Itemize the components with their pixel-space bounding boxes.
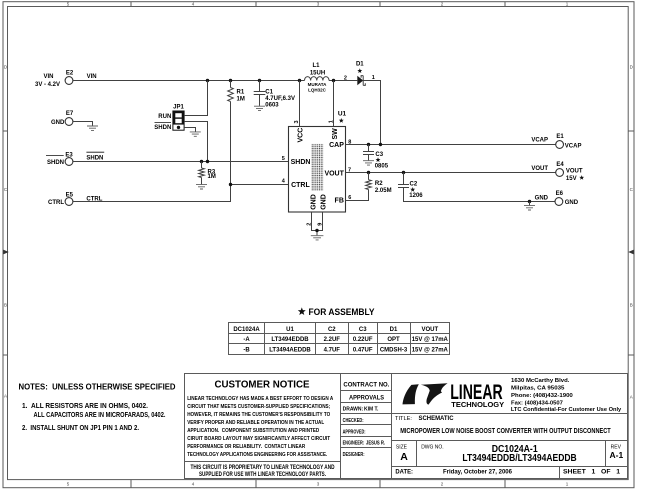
svg-text:VERIFY PROPER AND RELIABLE OPE: VERIFY PROPER AND RELIABLE OPERATION IN …: [187, 420, 324, 426]
wire CTRL E5 to U1: [73, 185, 289, 202]
svg-text:U1: U1: [286, 327, 294, 333]
Linear Technology logo mark: [403, 383, 448, 404]
junction SHDN-R3: [200, 160, 203, 163]
svg-text:PERFORMANCE OR RELIABILITY. C: PERFORMANCE OR RELIABILITY. CONTACT LINE…: [187, 444, 306, 450]
svg-text:GND: GND: [565, 200, 579, 206]
svg-text:LT3494EDDB: LT3494EDDB: [271, 337, 309, 343]
svg-text:VCC: VCC: [297, 128, 304, 143]
star for 15V: [579, 175, 584, 180]
svg-text:APPROVALS: APPROVALS: [349, 395, 384, 401]
svg-text:9: 9: [318, 223, 324, 226]
junction VOUT-C2: [402, 171, 405, 174]
terminal E1: [556, 134, 582, 150]
junction VIN-JP1: [206, 79, 209, 82]
svg-text:CUSTOMER NOTICE: CUSTOMER NOTICE: [215, 380, 310, 391]
svg-text:CTRL: CTRL: [291, 182, 310, 189]
resistor R2: [366, 173, 392, 194]
zone numbers top: [67, 1, 569, 6]
svg-text:FOR ASSEMBLY: FOR ASSEMBLY: [309, 307, 375, 317]
terminal E3: [46, 153, 73, 167]
U1 GND pins to ground: [312, 212, 323, 235]
wire JP1 pin3 to ground: [184, 128, 195, 132]
svg-text:D1: D1: [390, 327, 398, 333]
svg-text:LQH32C: LQH32C: [308, 87, 327, 92]
ground at C1: [254, 106, 265, 110]
ground at JP1: [190, 132, 201, 136]
svg-text:3: 3: [294, 120, 300, 123]
svg-text:GND: GND: [51, 120, 65, 126]
inductor L1: [305, 63, 330, 92]
svg-text:L1: L1: [312, 63, 320, 69]
address block: [511, 378, 622, 413]
svg-text:1206: 1206: [409, 193, 423, 199]
star FOR ASSEMBLY note: [298, 307, 375, 317]
pin number 8: [348, 139, 351, 145]
svg-text:ALL CAPACITORS ARE IN MICROFAR: ALL CAPACITORS ARE IN MICROFARADS, 0402.: [34, 412, 166, 419]
junction VIN-R1: [229, 79, 232, 82]
svg-text:VOUT: VOUT: [566, 169, 583, 175]
wire FB to R2: [346, 190, 369, 201]
date/sheet row: [392, 467, 628, 479]
wire JP1 pin2 to SHDN net: [184, 122, 207, 162]
svg-text:R2: R2: [375, 181, 383, 187]
svg-text:DATE:: DATE:: [395, 469, 413, 476]
svg-text:SCHEMATIC: SCHEMATIC: [419, 415, 454, 422]
customer notice box: [185, 374, 341, 479]
svg-text:U1: U1: [338, 110, 347, 117]
net label VCAP: [531, 138, 548, 144]
svg-text:GND: GND: [535, 195, 549, 201]
wire JP1 pin1 to VIN: [184, 81, 207, 116]
net label SHDN (overline): [86, 152, 104, 161]
svg-text:Fax: (408)434-0507: Fax: (408)434-0507: [511, 401, 564, 407]
wire D1 cathode down to CAP net: [363, 81, 380, 145]
wire VOUT net to E4: [346, 172, 556, 174]
pin number 2 (U1 GND): [306, 223, 312, 226]
svg-text:E6: E6: [556, 191, 564, 197]
svg-text:C3: C3: [359, 327, 367, 333]
notes text: [19, 382, 176, 432]
svg-text:RUN: RUN: [158, 114, 171, 120]
svg-text:VOUT: VOUT: [531, 166, 548, 172]
junction U1 GND: [315, 229, 318, 232]
svg-text:TECHNOLOGY: TECHNOLOGY: [451, 400, 504, 409]
svg-text:0.22UF: 0.22UF: [353, 337, 373, 343]
svg-text:CTRL: CTRL: [86, 196, 102, 202]
pin number 1 (D1): [372, 75, 375, 81]
svg-text:3V - 4.2V: 3V - 4.2V: [35, 82, 60, 88]
ground at R3: [196, 185, 207, 189]
svg-text:15V @ 17mA: 15V @ 17mA: [412, 337, 449, 343]
svg-text:1630 McCarthy Blvd.: 1630 McCarthy Blvd.: [511, 378, 570, 384]
svg-text:TITLE:: TITLE:: [395, 416, 412, 422]
svg-text:2.2UF: 2.2UF: [324, 337, 341, 343]
zone ticks right: [628, 131, 634, 355]
svg-text:0.47UF: 0.47UF: [353, 348, 373, 354]
svg-text:B: B: [4, 303, 7, 308]
svg-text:0603: 0603: [265, 103, 279, 109]
pin number 2 (D1): [344, 75, 347, 81]
resistor R1: [228, 81, 245, 103]
assembly options table: [229, 323, 450, 355]
star for C2: [410, 187, 415, 192]
net label VOUT: [531, 166, 548, 172]
capacitor C3: [363, 145, 389, 170]
svg-text:FB: FB: [335, 198, 344, 205]
junction CAP-D1: [379, 143, 382, 146]
svg-text:E7: E7: [66, 111, 74, 117]
ground at C3: [363, 161, 374, 165]
svg-text:VIN: VIN: [43, 74, 53, 80]
junction L1-SW: [332, 79, 335, 82]
svg-text:Phone: (408)432-1900: Phone: (408)432-1900: [511, 393, 574, 399]
svg-text:VIN: VIN: [87, 74, 97, 80]
svg-text:E3: E3: [65, 153, 73, 159]
svg-text:E5: E5: [66, 192, 74, 198]
svg-text:D1: D1: [356, 62, 364, 68]
svg-text:SHDN: SHDN: [154, 125, 171, 131]
svg-text:2. INSTALL SHUNT ON JP1 PIN 1: 2. INSTALL SHUNT ON JP1 PIN 1 AND 2.: [22, 425, 139, 432]
svg-text:2.05M: 2.05M: [375, 188, 392, 194]
svg-text:CONTRACT NO.: CONTRACT NO.: [343, 382, 389, 388]
JP1 label RUN: [158, 114, 171, 120]
ground at U1: [311, 236, 324, 240]
pin number 1 (SW): [329, 120, 335, 123]
svg-text:2: 2: [344, 75, 347, 81]
svg-text:VOUT: VOUT: [421, 327, 438, 333]
svg-text:0805: 0805: [375, 163, 389, 169]
zone letters left: [4, 65, 8, 399]
svg-text:LT3494EDDB/LT3494AEDDB: LT3494EDDB/LT3494AEDDB: [462, 453, 576, 464]
svg-text:SHDN: SHDN: [86, 155, 103, 161]
wire R1 bottom to CTRL junction: [230, 102, 232, 202]
zone letters right: [630, 65, 634, 400]
JP1 label SHDN (with overline): [154, 123, 171, 131]
svg-text:4.7UF: 4.7UF: [324, 348, 341, 354]
svg-text:CIRUIT BOARD LAYOUT MAY SIGNIF: CIRUIT BOARD LAYOUT MAY SIGNIFICANTLY AF…: [187, 436, 330, 442]
svg-text:-A: -A: [243, 337, 250, 343]
svg-text:5: 5: [282, 156, 285, 162]
wire VIN E2 to L1: [73, 80, 305, 82]
svg-text:1M: 1M: [208, 174, 216, 180]
svg-text:MURATA: MURATA: [308, 82, 328, 87]
svg-text:CHECKED:: CHECKED:: [343, 418, 364, 424]
wire VCC stub: [299, 81, 301, 127]
svg-text:1. ALL RESISTORS ARE IN OHMS,: 1. ALL RESISTORS ARE IN OHMS, 0402.: [22, 403, 148, 410]
wire SHDN E3 to U1: [73, 161, 289, 163]
pin number 6: [348, 195, 351, 201]
svg-text:SHDN: SHDN: [47, 160, 64, 166]
svg-text:APPLICATION. COMPONENT SUBSTI: APPLICATION. COMPONENT SUBSTITUTION AND …: [187, 428, 319, 434]
diode D1 (schottky): [356, 62, 365, 86]
svg-text:A: A: [630, 395, 633, 400]
junction SHDN-JP1: [206, 160, 209, 163]
svg-text:2: 2: [306, 223, 312, 226]
zone ticks bottom: [131, 480, 505, 488]
svg-text:DWG NO.: DWG NO.: [421, 444, 444, 450]
star for U1: [339, 118, 344, 123]
svg-text:ENGINEER:: ENGINEER:: [343, 441, 365, 447]
svg-text:GND: GND: [310, 194, 317, 210]
svg-text:C2: C2: [328, 327, 336, 333]
svg-text:C2: C2: [410, 181, 418, 187]
terminal E7: [51, 111, 74, 126]
terminal E6: [555, 191, 579, 206]
svg-text:OPT: OPT: [387, 337, 400, 343]
svg-text:A: A: [4, 394, 7, 399]
svg-text:SIZE: SIZE: [396, 444, 408, 450]
svg-text:Milpitas, CA 95035: Milpitas, CA 95035: [511, 386, 565, 392]
capacitor C1: [254, 81, 295, 109]
pin number 3: [294, 120, 300, 123]
svg-text:LINEAR TECHNOLOGY HAS MADE A B: LINEAR TECHNOLOGY HAS MADE A BEST EFFORT…: [187, 396, 334, 402]
terminal E5: [48, 192, 74, 206]
svg-text:SUPPLIED FOR USE WITH LINEAR T: SUPPLIED FOR USE WITH LINEAR TECHNOLOGY …: [199, 472, 326, 478]
svg-text:A-1: A-1: [610, 450, 624, 460]
customer notice paragraph: [187, 396, 334, 458]
svg-text:CTRL: CTRL: [48, 200, 64, 206]
svg-text:APPROVED:: APPROVED:: [343, 429, 366, 435]
pin number 5: [282, 156, 285, 162]
svg-text:SW: SW: [332, 128, 339, 140]
svg-text:MICROPOWER LOW NOISE BOOST CON: MICROPOWER LOW NOISE BOOST CONVERTER WIT…: [400, 428, 611, 435]
logo wordmark LINEAR: [450, 380, 504, 409]
zone ticks left: [3, 131, 8, 355]
terminal E4: [556, 162, 583, 182]
wire SW stub: [333, 81, 335, 127]
svg-text:TECHNOLOGY APPLICATIONS ENGINE: TECHNOLOGY APPLICATIONS ENGINEERING FOR …: [187, 452, 327, 458]
junction CTRL-R1: [229, 183, 232, 186]
IC U1 (LT3494): [289, 110, 347, 212]
jumper JP1: [173, 104, 185, 130]
centering arrow left: [3, 250, 9, 255]
svg-text:JESUS R.: JESUS R.: [366, 441, 385, 447]
junction VIN-C1: [258, 79, 261, 82]
svg-text:15V: 15V: [566, 176, 577, 182]
svg-text:JP1: JP1: [173, 104, 184, 110]
star for D1: [357, 68, 362, 73]
wire C2 bottom to E6: [404, 188, 555, 202]
svg-text:DESIGNER:: DESIGNER:: [343, 452, 365, 458]
junction VIN-VCC: [298, 79, 301, 82]
pin number 4: [282, 179, 286, 185]
svg-text:-B: -B: [243, 348, 250, 354]
net label GND: [535, 195, 549, 201]
svg-text:1: 1: [329, 120, 335, 123]
svg-text:E2: E2: [66, 71, 74, 77]
svg-text:SHEET 1 OF 1: SHEET 1 OF 1: [563, 470, 621, 476]
junction CAP-C3: [367, 143, 370, 146]
svg-text:HOWEVER, IT REMAINS THE CUSTOM: HOWEVER, IT REMAINS THE CUSTOMER'S RESPO…: [187, 412, 330, 418]
svg-text:1M: 1M: [237, 96, 245, 102]
centering arrow right: [628, 250, 634, 255]
resistor R3: [199, 162, 216, 185]
svg-text:B: B: [630, 303, 633, 308]
svg-text:C1: C1: [265, 89, 273, 95]
svg-text:A: A: [400, 451, 408, 463]
wire CAP net to E1: [346, 144, 556, 146]
svg-text:LT3494AEDDB: LT3494AEDDB: [269, 348, 311, 354]
contract/approvals column: [341, 374, 392, 479]
pin number 7: [348, 167, 351, 173]
svg-text:VCAP: VCAP: [565, 144, 582, 150]
svg-text:DC1024A: DC1024A: [233, 327, 260, 333]
junction GND symbol on VOUT return: [528, 200, 531, 203]
svg-text:GND: GND: [321, 194, 328, 210]
zone ticks top: [131, 2, 505, 7]
svg-text:E4: E4: [556, 162, 564, 168]
svg-text:CIRCUIT THAT MEETS CUSTOMER-SU: CIRCUIT THAT MEETS CUSTOMER-SUPPLIED SPE…: [187, 404, 330, 410]
svg-text:CMDSH-3: CMDSH-3: [380, 348, 408, 354]
svg-text:15V @ 27mA: 15V @ 27mA: [412, 348, 449, 354]
ground at E7: [87, 126, 98, 130]
zone numbers bottom: [67, 481, 569, 486]
svg-text:LTC Confidential-For Customer: LTC Confidential-For Customer Use Only: [511, 407, 622, 413]
svg-text:E1: E1: [556, 134, 564, 140]
svg-text:R1: R1: [237, 90, 245, 96]
svg-text:VCAP: VCAP: [531, 138, 548, 144]
svg-text:DRAWN:: DRAWN:: [343, 406, 364, 412]
svg-text:THIS CIRCUIT IS PROPRIETARY TO: THIS CIRCUIT IS PROPRIETARY TO LINEAR TE…: [191, 465, 336, 471]
size/dwg/rev row: [392, 441, 628, 467]
svg-text:Friday, October 27, 2006: Friday, October 27, 2006: [443, 469, 512, 476]
svg-text:C3: C3: [375, 152, 383, 158]
svg-text:15UH: 15UH: [310, 70, 325, 76]
svg-text:CAP: CAP: [329, 142, 344, 149]
net label VIN: [87, 74, 97, 80]
ground on wire to E6: [524, 202, 535, 211]
title row: [392, 414, 628, 441]
title block logo row: [392, 374, 628, 414]
wire E7 to ground: [73, 122, 93, 126]
svg-text:SHDN: SHDN: [291, 159, 311, 166]
net label CTRL: [86, 196, 102, 202]
svg-text:NOTES: UNLESS OTHERWISE SPECI: NOTES: UNLESS OTHERWISE SPECIFIED: [19, 382, 176, 392]
svg-text:4.7UF,6.3V: 4.7UF,6.3V: [265, 96, 295, 102]
capacitor C2: [398, 173, 423, 199]
wire L1 to D1 anode: [329, 80, 357, 82]
terminal E2: [35, 71, 74, 88]
svg-text:VOUT: VOUT: [324, 171, 344, 178]
customer notice footer: [191, 465, 336, 478]
svg-text:KIM T.: KIM T.: [364, 406, 379, 412]
star for C3: [376, 157, 381, 162]
junction VOUT-R2: [367, 171, 370, 174]
pin number 9 (U1 GND): [318, 223, 324, 226]
